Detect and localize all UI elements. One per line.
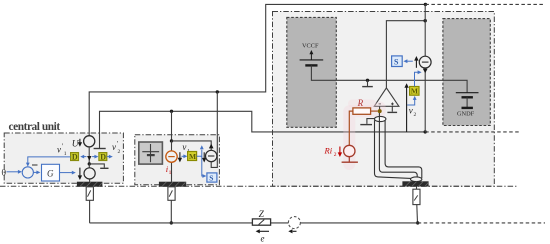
wire dashed bottom continuation xyxy=(418,222,545,224)
svg-text:Ri: Ri xyxy=(324,146,333,156)
block G controller xyxy=(42,164,60,181)
arrow down beside controlled source xyxy=(203,152,205,159)
current source top right xyxy=(419,56,431,68)
wire orange R to node xyxy=(371,110,378,112)
node op-amp inverting input xyxy=(379,106,381,110)
node junction at x171 xyxy=(170,110,173,113)
wire branch into sensor box xyxy=(171,111,173,141)
U source circle xyxy=(84,136,95,147)
arrow U direction xyxy=(79,139,81,143)
wire sensor top xyxy=(172,141,212,151)
arrow e xyxy=(259,230,269,232)
arrow blue into S2 xyxy=(407,60,413,62)
amplifier-stage outer dashed box xyxy=(273,12,495,187)
sensor-stage middle box xyxy=(135,135,220,185)
node bottom right junction xyxy=(416,221,419,224)
block D1 display xyxy=(71,153,79,161)
node bottom wire junction xyxy=(170,221,173,224)
summing junction xyxy=(22,167,33,178)
svg-text:D: D xyxy=(72,153,78,162)
arrow up on sensor source stub xyxy=(209,144,214,149)
svg-text:1: 1 xyxy=(169,170,172,176)
wire op-amp output xyxy=(386,21,425,88)
battery GNDF xyxy=(456,92,479,94)
central unit box xyxy=(4,133,123,183)
arrow blue into M1 xyxy=(182,155,185,157)
arrow 0 into summer xyxy=(7,171,19,173)
arrow VCCF xyxy=(310,53,312,60)
minus sign at summer xyxy=(32,164,38,166)
wire blue M2 to source xyxy=(415,72,419,86)
current source i1 xyxy=(166,151,177,162)
wire blue v2 into M2 xyxy=(407,99,415,105)
wire reference rail y111 xyxy=(100,111,426,148)
svg-text:2: 2 xyxy=(414,112,417,118)
impedance Z2 to plane xyxy=(168,187,175,201)
node rail ground junction xyxy=(366,79,369,82)
block D2 display xyxy=(99,153,107,161)
node lower rail junction xyxy=(424,130,427,133)
arrow dashed under circle xyxy=(293,230,297,232)
block M1 measure xyxy=(188,152,197,161)
svg-text:1: 1 xyxy=(64,151,67,157)
arrow down on wire below source xyxy=(423,69,428,74)
GNDF box xyxy=(443,19,490,126)
svg-text:Z: Z xyxy=(259,210,265,220)
svg-text:v: v xyxy=(57,144,61,154)
arrow G output xyxy=(60,172,73,174)
hatched bar sensor ground xyxy=(159,182,186,187)
hatched bar amplifier ground xyxy=(402,181,428,186)
cable shield outer line xyxy=(375,120,411,178)
wire dashed lower rail continuation xyxy=(425,131,520,133)
wire plus input to ground xyxy=(391,106,393,111)
wire from node down to sensor source loop xyxy=(211,92,217,167)
arrow down at lower source xyxy=(79,168,81,176)
op-amp U1 xyxy=(374,88,399,106)
svg-text:VCCF: VCCF xyxy=(302,43,319,50)
arrow Ri2 direction xyxy=(339,147,341,154)
arrow v2 xyxy=(406,87,408,132)
node sensor box junction xyxy=(170,139,173,142)
svg-text:GNDF: GNDF xyxy=(457,110,475,117)
svg-text:D: D xyxy=(100,153,106,162)
impedance Z1 to plane xyxy=(86,187,93,201)
ground stub right of node xyxy=(89,164,104,168)
wire orange R to Ri2 xyxy=(349,111,353,145)
battery box in sensor stage xyxy=(139,142,163,164)
cable end ellipse bottom xyxy=(411,177,422,182)
highlight pink current path xyxy=(349,108,379,165)
svg-text:S: S xyxy=(394,58,399,67)
controlled current source sensor xyxy=(206,150,217,161)
current source Ri2 xyxy=(344,145,355,156)
cable conductor xyxy=(379,113,417,178)
ground-plane boundary line xyxy=(0,185,517,187)
svg-text:R: R xyxy=(357,98,364,108)
svg-text:U: U xyxy=(72,139,80,149)
VCCF supply box xyxy=(287,17,337,127)
block S1 send xyxy=(207,173,217,182)
svg-text:v: v xyxy=(112,142,116,152)
svg-text:0: 0 xyxy=(2,168,7,178)
dashed circle coupling xyxy=(288,217,300,229)
hatched bar central ground xyxy=(77,182,103,187)
ground bar at U source xyxy=(94,148,106,150)
arrow up beside source xyxy=(415,60,417,68)
node top rail junction xyxy=(424,3,427,6)
wire dashed top rail continuation xyxy=(425,3,545,5)
svg-text:e: e xyxy=(261,233,265,243)
hatch marks on ground bars xyxy=(80,182,428,187)
wire top loop from U source to top rail xyxy=(89,4,425,135)
block S2 send xyxy=(392,56,403,67)
node junction at x217 xyxy=(216,90,219,93)
svg-text:S: S xyxy=(209,174,213,183)
svg-text:M: M xyxy=(189,152,196,161)
ground bar at rail xyxy=(367,80,369,86)
wire feedback blue xyxy=(28,157,71,163)
svg-text:M: M xyxy=(411,87,418,96)
shield ground left of cable xyxy=(367,119,375,124)
impedance Z4 to plane xyxy=(416,187,418,190)
battery VCCF xyxy=(300,59,324,61)
resistor R xyxy=(353,108,371,114)
wire feedback vertical x425 xyxy=(424,4,426,56)
svg-text:2: 2 xyxy=(118,149,121,155)
wire bottom earth link xyxy=(90,222,418,224)
impedance Z earth xyxy=(252,219,270,225)
svg-text:v: v xyxy=(182,142,186,152)
wire blue M1 output xyxy=(197,150,202,157)
arrow current direction v1 xyxy=(179,152,181,159)
cable shield inner line xyxy=(385,121,422,178)
svg-text:2: 2 xyxy=(334,152,337,158)
block M2 measure xyxy=(410,87,419,96)
bar Ri2 terminal xyxy=(342,161,358,163)
svg-text:central unit: central unit xyxy=(9,121,61,133)
arrows blue D links xyxy=(84,156,87,158)
node central junction xyxy=(88,162,91,165)
wire below U source with arrow xyxy=(88,147,90,164)
node output junction xyxy=(424,19,427,22)
lower source circle xyxy=(88,164,90,168)
arrow summer to G xyxy=(33,171,37,173)
wire through i1 source xyxy=(171,141,173,151)
svg-text:v: v xyxy=(409,106,413,116)
svg-text:G: G xyxy=(47,168,54,178)
wire supply rail xyxy=(311,65,467,92)
cable entry ellipse top xyxy=(375,116,386,121)
